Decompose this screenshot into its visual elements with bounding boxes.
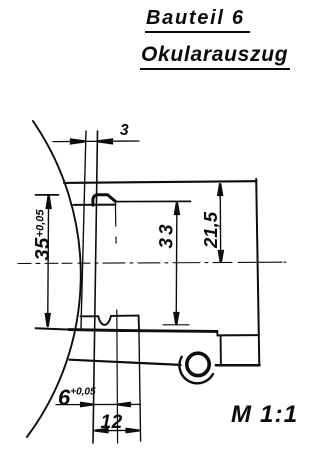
arrow left of 3 (71, 140, 85, 144)
label 21,5 (202, 212, 221, 248)
extension line D (x~140) (139, 318, 141, 441)
dim 6 arrow pointing left (118, 403, 131, 406)
dim 21,5 line (219, 184, 222, 262)
label 33 (158, 221, 177, 248)
dim 33 line (175, 203, 178, 325)
step edge at bore right (138, 316, 140, 331)
label 12 (101, 413, 123, 432)
label 6 +0,05 (58, 387, 96, 409)
dim 12 line (95, 429, 140, 431)
dim 35 top reference line (36, 194, 59, 196)
title Okularauszug (140, 44, 290, 70)
arrow right of 3 (98, 140, 112, 144)
scale M 1:1 (231, 403, 298, 427)
part right edge (256, 179, 259, 365)
bore top line right of dome (33 ref) (115, 200, 190, 202)
dim 35 arrow down (46, 314, 50, 327)
dimension extension line B (x~94) (93, 131, 98, 443)
title Bauteil 6 (145, 8, 250, 33)
dimension extension line A (x~82) (81, 131, 86, 328)
dim 12 arrow pointing left (95, 429, 108, 432)
dim 35 line (47, 196, 50, 327)
dim 6 arrow pointing right (81, 403, 94, 406)
pinion hole inner ring (187, 353, 209, 375)
base plate bottom line (70, 360, 181, 365)
bore bottom line left (81, 315, 99, 317)
pinion hole outer arc (179, 357, 212, 383)
bore bottom line right (111, 315, 139, 317)
dim 21,5 arrow down (219, 251, 223, 262)
label 3 (120, 123, 129, 139)
dim 33 arrow down (174, 313, 178, 325)
dim 21,5 arrow up (218, 183, 222, 195)
U notch (98, 316, 111, 325)
dimension line 3 (53, 140, 139, 143)
step down to tab (216, 331, 219, 336)
dome boss (93, 195, 116, 206)
tab left edge (220, 336, 222, 365)
extension line C (x~116, dome right) (115, 202, 117, 443)
dim 33 arrow up (175, 202, 179, 214)
dim 33 bottom reference tick (163, 324, 189, 326)
bore top line (continues under dome) (74, 204, 116, 206)
dim 35 arrow up (47, 195, 51, 208)
tube wall arc (27, 121, 81, 437)
dim 12 arrow pointing right (127, 429, 140, 432)
center line (18, 262, 286, 263)
tab bottom edge (216, 364, 260, 367)
part bottom edge / 35 reference (36, 328, 70, 329)
dim 6 line (56, 403, 141, 405)
label 35 +0,05 (33, 209, 53, 260)
part top edge (64, 181, 257, 183)
tab top edge (218, 334, 260, 336)
